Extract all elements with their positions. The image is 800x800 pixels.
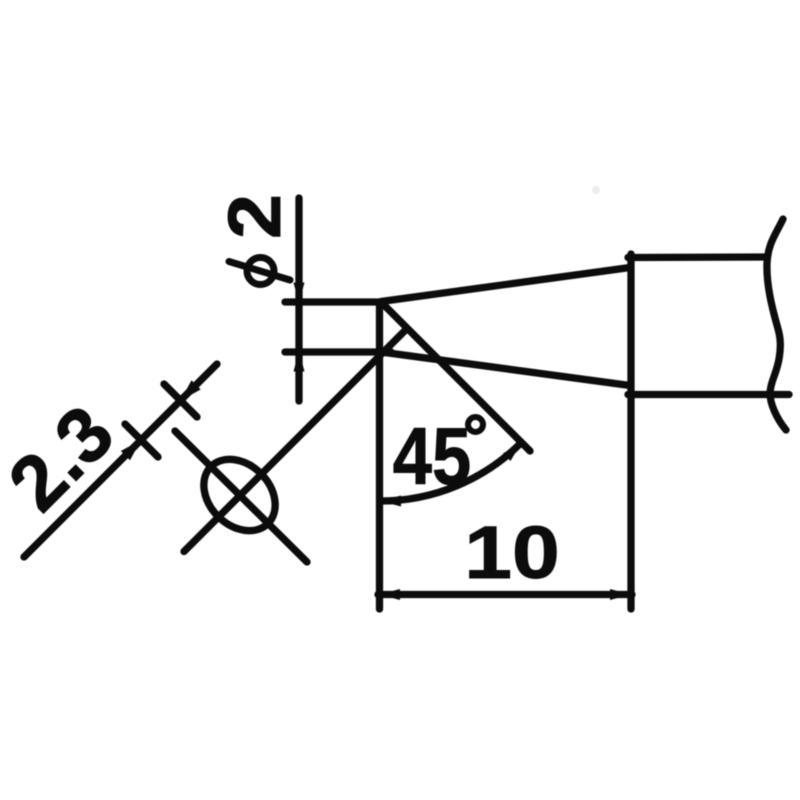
svg-text:2: 2 — [213, 194, 296, 239]
svg-text:10: 10 — [464, 511, 559, 594]
svg-text:2.3: 2.3 — [0, 388, 130, 527]
svg-text:45: 45 — [393, 411, 471, 502]
